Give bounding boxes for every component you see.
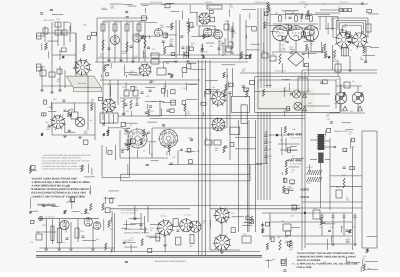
svg-text:L24: L24 <box>281 9 284 12</box>
svg-text:C5: C5 <box>31 241 33 244</box>
svg-text:L29: L29 <box>189 245 192 248</box>
svg-text:VALIANT MOD / PWR SCHEMATIC: VALIANT MOD / PWR SCHEMATIC <box>155 260 187 263</box>
svg-text:1MEG: 1MEG <box>122 52 128 55</box>
svg-text:C5: C5 <box>292 155 294 158</box>
svg-text:T1: T1 <box>101 111 103 114</box>
svg-text:L20: L20 <box>277 236 280 239</box>
svg-text:V11: V11 <box>212 86 215 89</box>
svg-text:V6: V6 <box>352 80 354 83</box>
svg-text:R21: R21 <box>150 153 153 156</box>
svg-text:250V: 250V <box>84 132 89 135</box>
svg-text:220K: 220K <box>291 51 296 54</box>
svg-text:R16: R16 <box>53 98 56 101</box>
svg-text:MIC XFMR: MIC XFMR <box>78 82 87 85</box>
svg-text:R64: R64 <box>367 267 370 270</box>
svg-text:220K: 220K <box>360 58 365 61</box>
svg-text:C61: C61 <box>83 24 86 27</box>
svg-text:WITH SILICON DIODE STRINGS (SE: WITH SILICON DIODE STRINGS (SEE NOTES). <box>42 157 82 160</box>
svg-text:“SOLID STATING” THE VALIANT PO: “SOLID STATING” THE VALIANT POWER SUPPLI… <box>297 252 355 255</box>
svg-text:.1: .1 <box>126 128 128 131</box>
svg-text:470K: 470K <box>281 49 286 52</box>
svg-text:1.) REMOVE RECTIFIER TUBES AND: 1.) REMOVE RECTIFIER TUBES AND INSTALL 1… <box>297 256 357 259</box>
svg-text:R29: R29 <box>244 221 247 224</box>
svg-text:.05: .05 <box>40 67 43 70</box>
svg-text:3. REMOVE THE 10H CHOKE L31, I: 3. REMOVE THE 10H CHOKE L31, INSTALL 5H … <box>42 165 87 168</box>
svg-text:C25: C25 <box>116 21 119 24</box>
svg-text:V12: V12 <box>146 95 149 98</box>
svg-text:R19: R19 <box>268 141 271 144</box>
svg-text:(V13 6AL5) AND FILTERING (L30,: (V13 6AL5) AND FILTERING (L30, C93 & C94… <box>32 192 86 195</box>
svg-text:C19: C19 <box>297 75 300 78</box>
svg-text:V11: V11 <box>126 110 129 113</box>
svg-text:680: 680 <box>47 128 50 131</box>
svg-text:V12: V12 <box>152 48 155 51</box>
svg-text:C48: C48 <box>330 226 333 229</box>
svg-text:R49: R49 <box>225 20 228 23</box>
svg-text:C22: C22 <box>290 215 293 218</box>
svg-text:V5: V5 <box>140 217 142 220</box>
svg-text:C12: C12 <box>231 212 234 215</box>
svg-text:680: 680 <box>134 57 137 60</box>
svg-text:V9: V9 <box>130 124 132 127</box>
svg-text:R49: R49 <box>291 183 294 186</box>
svg-text:R44: R44 <box>272 258 275 261</box>
svg-text:2.) REPLACE ALL FILTER CAPS. C: 2.) REPLACE ALL FILTER CAPS. C91, C92, C… <box>297 263 359 266</box>
svg-text:AUDIO STAGE): AUDIO STAGE) <box>37 203 55 206</box>
svg-text:4040 4040: 4040 4040 <box>287 159 302 163</box>
svg-text:4. CHECK BIAS ON THE 6146 FINA: 4. CHECK BIAS ON THE 6146 FINALS, ADJUST… <box>42 168 86 171</box>
svg-text:R27: R27 <box>68 199 71 202</box>
svg-text:V14: V14 <box>304 187 307 190</box>
svg-text:POWER SUPPLY: POWER SUPPLY <box>334 130 350 133</box>
svg-text:2. ALL ELECTROLYTIC CAPS GET R: 2. ALL ELECTROLYTIC CAPS GET REPLACED, U… <box>42 159 91 162</box>
svg-text:R15: R15 <box>140 21 143 24</box>
svg-text:R31: R31 <box>110 228 113 231</box>
svg-text:250V: 250V <box>143 55 148 58</box>
svg-text:R69: R69 <box>186 25 189 28</box>
svg-text:C60: C60 <box>308 13 311 16</box>
svg-text:C46: C46 <box>292 128 295 131</box>
svg-text:V12: V12 <box>128 21 131 24</box>
svg-text:R31: R31 <box>268 148 271 151</box>
svg-text:T3: T3 <box>350 49 352 52</box>
svg-text:R63: R63 <box>196 150 199 153</box>
svg-text:C19: C19 <box>243 233 246 236</box>
svg-text:V9: V9 <box>156 229 158 232</box>
svg-text:C43: C43 <box>108 84 111 87</box>
svg-text:1MEG: 1MEG <box>283 110 289 113</box>
svg-text:C66: C66 <box>308 102 311 105</box>
svg-text:C60: C60 <box>343 150 346 153</box>
svg-text:R24: R24 <box>302 64 305 67</box>
svg-text:C28: C28 <box>209 45 212 48</box>
svg-text:V11: V11 <box>89 119 92 122</box>
svg-text:R61: R61 <box>166 62 169 65</box>
svg-text:1MEG: 1MEG <box>289 189 295 192</box>
svg-text:R39: R39 <box>42 224 45 227</box>
svg-text:C59: C59 <box>313 207 316 210</box>
svg-text:C39: C39 <box>307 182 310 185</box>
svg-text:V11: V11 <box>319 226 322 229</box>
svg-text:4040 4040: 4040 4040 <box>287 133 302 137</box>
svg-text:OR BETTER IN THE DOUBLER SECTI: OR BETTER IN THE DOUBLER SECTIONS. <box>42 162 79 165</box>
svg-text:L23: L23 <box>268 134 271 137</box>
svg-text:R43: R43 <box>342 174 345 177</box>
svg-text:.05: .05 <box>191 44 194 47</box>
svg-text:500: 500 <box>242 70 245 73</box>
svg-text:C47: C47 <box>65 185 68 188</box>
svg-text:AUDIO CLIPPER CIRCUIT): AUDIO CLIPPER CIRCUIT) <box>124 231 149 234</box>
svg-text:C58: C58 <box>334 60 337 63</box>
svg-text:C42: C42 <box>102 7 105 10</box>
svg-text:100K: 100K <box>110 6 115 9</box>
svg-text:.01: .01 <box>304 6 307 9</box>
svg-text:R27: R27 <box>350 110 353 113</box>
svg-text:PP 6L6: PP 6L6 <box>300 1 306 4</box>
svg-text:T2: T2 <box>208 6 210 9</box>
svg-text:C57: C57 <box>62 241 65 244</box>
svg-text:R20: R20 <box>36 231 39 234</box>
svg-text:R54: R54 <box>292 262 295 265</box>
svg-text:R47: R47 <box>322 2 325 5</box>
svg-text:470K: 470K <box>229 6 234 9</box>
svg-text:2. REMOVE / BYPASS AUDIO CLIPP: 2. REMOVE / BYPASS AUDIO CLIPPER CIRCUIT <box>32 188 90 191</box>
svg-text:C6: C6 <box>272 53 274 56</box>
svg-text:L31: L31 <box>228 51 231 54</box>
svg-text:DRIVER: DRIVER <box>205 1 213 4</box>
svg-text:R2: R2 <box>285 241 287 244</box>
svg-text:R51: R51 <box>151 79 154 82</box>
svg-text:VALIANT AUDIO MODS “PHASE ONE”: VALIANT AUDIO MODS “PHASE ONE” <box>32 178 79 181</box>
svg-text:R37: R37 <box>190 137 193 140</box>
svg-text:R11: R11 <box>96 238 99 241</box>
svg-text:C8: C8 <box>308 90 310 93</box>
svg-text:KOKO: KOKO <box>301 195 310 199</box>
svg-text:.002: .002 <box>345 199 349 202</box>
svg-text:C63: C63 <box>268 155 271 158</box>
svg-text:C10: C10 <box>336 78 339 81</box>
svg-text:C19: C19 <box>336 186 339 189</box>
svg-text:R25: R25 <box>104 21 107 24</box>
svg-text:L20: L20 <box>351 145 354 148</box>
svg-text:MIC JACKS: MIC JACKS <box>44 19 55 22</box>
svg-text:SPEECH AMP: SPEECH AMP <box>150 1 163 4</box>
svg-text:C33: C33 <box>56 18 59 21</box>
svg-text:470K: 470K <box>186 112 191 115</box>
svg-text:C58: C58 <box>48 106 51 109</box>
svg-text:C21: C21 <box>281 220 284 223</box>
svg-text:V9: V9 <box>219 40 221 43</box>
svg-text:250V: 250V <box>283 89 288 92</box>
svg-text:C48: C48 <box>120 100 123 103</box>
svg-text:V9: V9 <box>366 20 368 23</box>
svg-text:C39: C39 <box>80 230 83 233</box>
svg-text:L33: L33 <box>281 44 284 47</box>
svg-text:MODULATOR: MODULATOR <box>255 1 268 4</box>
svg-text:V3: V3 <box>143 150 145 153</box>
svg-text:R23: R23 <box>284 235 287 238</box>
svg-text:1MEG: 1MEG <box>345 241 351 244</box>
svg-text:100K: 100K <box>160 26 165 29</box>
svg-text:.05: .05 <box>209 141 212 144</box>
svg-text:R17: R17 <box>280 139 283 142</box>
svg-text:OUTPUT: OUTPUT <box>340 1 349 4</box>
svg-text:C24: C24 <box>204 50 207 53</box>
svg-text:C47: C47 <box>70 109 73 112</box>
svg-text:TO MOD B+ HV: TO MOD B+ HV <box>274 70 287 73</box>
svg-text:R64: R64 <box>31 188 34 191</box>
svg-text:C53: C53 <box>327 118 330 121</box>
svg-text:R24: R24 <box>352 226 355 229</box>
svg-text:.01: .01 <box>150 229 153 232</box>
svg-text:C63: C63 <box>201 20 204 23</box>
svg-text:CONNECT C84 TO PIN 6 OF V10 6C: CONNECT C84 TO PIN 6 OF V10 6C4 (THIRD <box>32 195 86 198</box>
svg-text:C10: C10 <box>182 87 185 90</box>
svg-text:C93A & C93B.: C93A & C93B. <box>297 266 313 269</box>
svg-text:1. REPLACE R(L) 1 MEG WITH 10: 1. REPLACE R(L) 1 MEG WITH 10 MEG IF USI… <box>32 181 90 184</box>
svg-text:1. THE RECTIFIER TUBES 5R4 AND: 1. THE RECTIFIER TUBES 5R4 AND 866A ARE … <box>42 154 92 157</box>
svg-text:C27: C27 <box>233 32 236 35</box>
svg-text:R44: R44 <box>45 121 48 124</box>
svg-text:5W: 5W <box>220 44 223 47</box>
svg-text:L34: L34 <box>346 260 349 263</box>
svg-text:C12: C12 <box>122 86 125 89</box>
svg-text:V10: V10 <box>172 156 175 159</box>
svg-text:R8: R8 <box>310 43 312 46</box>
svg-text:1000 PIV, 2 A DIODES.: 1000 PIV, 2 A DIODES. <box>297 259 322 262</box>
svg-text:C24: C24 <box>150 110 153 113</box>
svg-text:(FORMER LOCATION OF: (FORMER LOCATION OF <box>124 228 148 231</box>
svg-text:V3: V3 <box>300 20 302 23</box>
